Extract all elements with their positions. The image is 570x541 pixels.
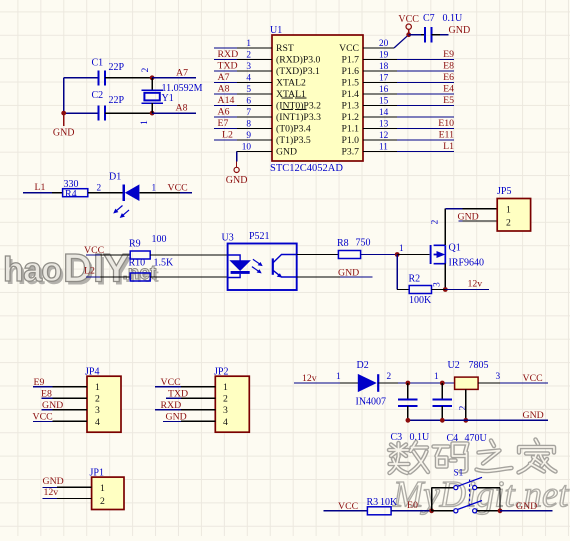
svg-text:19: 19: [379, 51, 389, 61]
svg-text:2: 2: [223, 394, 228, 405]
junction: [498, 508, 503, 513]
junction: [406, 381, 411, 386]
svg-text:12v: 12v: [44, 487, 59, 498]
wire: [477, 510, 500, 512]
svg-text:VCC: VCC: [161, 377, 181, 388]
U1 pin 13: [363, 118, 454, 129]
wire: [236, 152, 238, 162]
svg-text:U3: U3: [222, 233, 234, 244]
svg-text:750: 750: [356, 238, 371, 249]
connector JP1: [90, 468, 125, 510]
svg-text:0.1U: 0.1U: [410, 432, 431, 443]
wire: [459, 220, 463, 222]
svg-text:10: 10: [242, 143, 252, 153]
svg-text:XTAL1: XTAL1: [276, 89, 306, 100]
svg-text:S1: S1: [454, 469, 464, 479]
wire: [64, 77, 98, 79]
junction: [406, 418, 411, 423]
svg-text:2: 2: [387, 372, 392, 382]
svg-text:2: 2: [431, 219, 441, 224]
junction: [150, 75, 155, 80]
wire: [444, 264, 446, 290]
power port GND (U1 pin10): [226, 162, 248, 187]
wire: [64, 112, 98, 114]
U1 pin 16: [363, 84, 454, 95]
svg-text:D2: D2: [357, 360, 369, 371]
svg-text:22P: 22P: [109, 62, 125, 73]
junction: [443, 287, 448, 292]
svg-text:4: 4: [223, 417, 228, 428]
U1 pin 2: [214, 49, 272, 61]
wire: [43, 498, 58, 500]
svg-text:16: 16: [379, 85, 389, 95]
svg-text:20: 20: [379, 39, 389, 49]
svg-text:MyDigit.net: MyDigit.net: [392, 474, 569, 515]
svg-text:XTAL2: XTAL2: [276, 78, 306, 89]
junction: [440, 418, 445, 423]
U1 pin 6: [214, 95, 272, 107]
U1 pin 15: [363, 95, 454, 106]
svg-text:7: 7: [246, 108, 251, 118]
U1 pin 20: [363, 39, 394, 49]
resistor R10 1.5K: [129, 258, 175, 282]
capacitor C4 470U: [433, 383, 488, 444]
watermark haoDIY.net: [3, 247, 159, 294]
svg-text:E7: E7: [218, 118, 229, 129]
svg-text:E11: E11: [439, 130, 455, 141]
wire: [43, 486, 58, 488]
power port GND: [53, 113, 75, 138]
svg-text:P1.1: P1.1: [342, 124, 360, 135]
svg-text:R3: R3: [367, 497, 379, 508]
svg-text:P1.2: P1.2: [342, 112, 360, 123]
svg-text:2: 2: [246, 51, 251, 61]
svg-text:1: 1: [434, 372, 439, 382]
resistor R3 10K: [367, 497, 399, 515]
svg-text:3: 3: [433, 282, 443, 287]
svg-text:C7: C7: [423, 13, 435, 24]
wire: [105, 112, 152, 114]
wire: [152, 77, 196, 79]
watermark MyDigit.net: [392, 474, 569, 515]
svg-text:2: 2: [100, 496, 105, 507]
wire: [396, 255, 398, 290]
svg-text:14: 14: [379, 108, 389, 118]
wire: [42, 409, 53, 411]
wire: [499, 488, 501, 511]
svg-text:7805: 7805: [469, 360, 489, 371]
svg-text:P521: P521: [249, 231, 270, 242]
svg-text:470U: 470U: [465, 433, 488, 444]
junction: [395, 252, 400, 257]
svg-text:1: 1: [95, 382, 100, 393]
svg-text:C2: C2: [92, 90, 104, 101]
wire: [478, 382, 500, 384]
svg-text:2: 2: [459, 405, 469, 410]
svg-text:C4: C4: [447, 433, 459, 444]
wire: [465, 389, 467, 420]
wire: [445, 208, 462, 210]
svg-text:P1.5: P1.5: [342, 78, 360, 89]
svg-text:15: 15: [379, 97, 389, 107]
U1 pin 18: [363, 61, 454, 72]
svg-text:U1: U1: [270, 25, 282, 36]
svg-text:GND: GND: [42, 400, 63, 411]
svg-text:P1.4: P1.4: [342, 89, 360, 100]
connector JP2: [214, 367, 249, 433]
svg-text:A7: A7: [176, 67, 188, 78]
svg-text:E5: E5: [443, 95, 454, 106]
svg-text:5: 5: [246, 85, 251, 95]
svg-text:U2: U2: [448, 360, 460, 371]
svg-text:L1: L1: [443, 141, 454, 152]
svg-text:VCC: VCC: [33, 412, 53, 423]
svg-text:9: 9: [246, 131, 251, 141]
svg-text:D1: D1: [109, 172, 121, 183]
svg-text:R9: R9: [129, 239, 141, 250]
wire: [432, 510, 454, 512]
svg-text:R8: R8: [337, 238, 349, 249]
junction: [61, 111, 66, 116]
connector JP4: [85, 367, 121, 433]
U1 pin 17: [363, 72, 454, 83]
wire: [297, 276, 340, 278]
resistor R2 100K: [409, 274, 433, 306]
svg-text:E0: E0: [407, 500, 418, 511]
svg-text:TXD: TXD: [218, 61, 238, 72]
svg-text:L2: L2: [222, 130, 233, 141]
svg-text:E4: E4: [443, 84, 454, 95]
svg-text:E8: E8: [41, 389, 52, 400]
U1 pin 11: [363, 141, 454, 152]
wire: [361, 254, 398, 256]
svg-text:P1.6: P1.6: [342, 66, 360, 77]
svg-text:GND: GND: [53, 128, 75, 139]
svg-text:3: 3: [95, 405, 100, 416]
wire: [477, 487, 500, 489]
junction: [440, 381, 445, 386]
wire: [105, 77, 152, 79]
optocoupler U3 P521: [222, 231, 297, 290]
resistor R8 750: [337, 238, 371, 259]
svg-text:1: 1: [223, 382, 228, 393]
junction: [463, 418, 468, 423]
junction: [429, 508, 434, 513]
switch S1: [454, 469, 483, 513]
U1 pin 19: [363, 49, 454, 60]
wire: [431, 488, 433, 511]
svg-text:P1.3: P1.3: [342, 101, 360, 112]
wire: [440, 34, 449, 36]
diode D2 IN4007: [340, 360, 398, 407]
wire: [324, 510, 368, 512]
resistor R9 100: [129, 234, 167, 259]
svg-text:2: 2: [97, 184, 102, 194]
svg-text:VCC: VCC: [398, 14, 419, 25]
svg-text:VCC: VCC: [168, 182, 188, 193]
svg-text:STC12C4052AD: STC12C4052AD: [270, 163, 343, 174]
wire: [391, 510, 432, 512]
capacitor C1 22P: [92, 58, 125, 86]
wire: [445, 289, 489, 291]
wire: [432, 289, 446, 291]
svg-text:GND: GND: [276, 147, 297, 158]
svg-text:12v: 12v: [468, 279, 483, 290]
U1 pin 7: [214, 107, 272, 119]
svg-text:2: 2: [506, 218, 511, 229]
svg-text:100: 100: [152, 234, 167, 245]
svg-text:GND: GND: [523, 410, 544, 421]
svg-text:2: 2: [141, 67, 151, 72]
svg-text:GND: GND: [516, 501, 537, 512]
regulator U2 7805: [448, 360, 489, 410]
svg-text:hao: hao: [3, 251, 61, 289]
svg-text:IN4007: IN4007: [356, 396, 387, 407]
U1 pin 12: [363, 130, 454, 141]
svg-text:(T1)P3.5: (T1)P3.5: [276, 135, 311, 146]
svg-text:1: 1: [336, 372, 341, 382]
wire: [33, 420, 53, 422]
svg-text:8: 8: [246, 120, 251, 130]
svg-text:22P: 22P: [109, 95, 125, 106]
svg-text:R10: R10: [129, 258, 146, 269]
svg-text:4: 4: [246, 74, 251, 84]
svg-text:100K: 100K: [409, 295, 432, 306]
svg-text:RXD: RXD: [218, 49, 239, 60]
svg-text:R2: R2: [409, 274, 421, 285]
svg-text:11: 11: [379, 143, 388, 153]
svg-text:GND: GND: [43, 476, 64, 487]
capacitor C7 0.1U: [421, 13, 463, 42]
wire: [63, 78, 65, 113]
svg-text:12: 12: [379, 131, 389, 141]
svg-text:1: 1: [399, 244, 404, 254]
wire: [500, 382, 548, 384]
wire: [139, 192, 180, 194]
svg-text:P3.7: P3.7: [342, 147, 360, 158]
svg-text:VCC: VCC: [523, 373, 543, 384]
svg-text:10K: 10K: [380, 497, 398, 508]
transistor Q1 IRF9640: [431, 219, 485, 287]
wire: [155, 409, 181, 411]
wire: [394, 35, 409, 48]
wire: [33, 386, 53, 388]
svg-text:A7: A7: [218, 72, 230, 83]
svg-text:A14: A14: [218, 95, 235, 106]
svg-text:RST: RST: [276, 43, 294, 54]
svg-text:E8: E8: [443, 61, 454, 72]
U1 pin 9: [214, 130, 272, 142]
wire: [166, 397, 181, 399]
svg-text:6: 6: [246, 97, 251, 107]
U1 pin 8: [214, 118, 272, 130]
connector JP5: [497, 186, 531, 231]
svg-text:E9: E9: [34, 377, 45, 388]
wire: [397, 254, 429, 256]
svg-text:VCC: VCC: [339, 43, 359, 54]
svg-text:R4: R4: [65, 189, 77, 200]
wire: [463, 220, 498, 222]
wire: [408, 419, 548, 421]
svg-text:E9: E9: [443, 49, 454, 60]
svg-text:(TXD)P3.1: (TXD)P3.1: [276, 66, 320, 77]
U1 pin 4: [214, 72, 272, 84]
wire: [155, 386, 181, 388]
wire: [152, 112, 196, 114]
svg-text:17: 17: [379, 74, 389, 84]
U1 pin 14: [363, 108, 454, 118]
U1 pin 3: [214, 61, 272, 73]
capacitor C3 0.1U: [391, 383, 431, 443]
svg-text:(INT0)P3.2: (INT0)P3.2: [276, 101, 321, 112]
svg-text:1: 1: [140, 120, 150, 125]
svg-text:GND: GND: [449, 25, 471, 36]
wire: [23, 192, 52, 194]
U1 pin 5: [214, 84, 272, 96]
wire: [294, 382, 340, 384]
wire: [163, 420, 181, 422]
watermark 数码之家: [389, 440, 556, 474]
svg-text:Q1: Q1: [449, 243, 461, 254]
svg-text:GND: GND: [226, 175, 248, 186]
svg-text:13: 13: [379, 120, 389, 130]
wire: [398, 382, 455, 384]
svg-text:P1.7: P1.7: [342, 55, 360, 66]
svg-text:3: 3: [246, 62, 251, 72]
wire: [88, 192, 123, 194]
U1 pin 10: [237, 143, 272, 153]
svg-text:TXD: TXD: [168, 389, 188, 400]
wire: [297, 254, 339, 256]
junction: [150, 111, 155, 116]
junction: [406, 32, 411, 37]
resistor R4 330: [63, 179, 88, 200]
wire: [86, 276, 100, 278]
svg-text:1: 1: [100, 483, 105, 494]
svg-text:P1.0: P1.0: [342, 135, 360, 146]
svg-text:L2: L2: [84, 266, 95, 277]
svg-text:2: 2: [95, 394, 100, 405]
wire: [432, 487, 454, 489]
capacitor C2 22P: [92, 90, 125, 121]
svg-text:GND: GND: [338, 268, 359, 279]
svg-text:RXD: RXD: [161, 400, 182, 411]
svg-text:C3: C3: [391, 432, 403, 443]
svg-text:1: 1: [246, 39, 251, 49]
wire: [86, 254, 100, 256]
svg-text:1: 1: [506, 204, 511, 215]
wire: [463, 208, 498, 210]
svg-text:3: 3: [496, 372, 501, 382]
LED D1: [109, 172, 139, 219]
wire: [150, 254, 227, 256]
U1 pin 1: [214, 39, 272, 49]
wire: [409, 34, 421, 36]
wire: [42, 397, 53, 399]
wire: [444, 209, 446, 245]
svg-text:C1: C1: [92, 58, 104, 69]
svg-text:Y1: Y1: [162, 93, 174, 104]
svg-text:1.5K: 1.5K: [154, 258, 175, 269]
IC U1 STC12C4052AD: [270, 25, 363, 174]
wire: [500, 510, 553, 512]
power port VCC: [398, 14, 419, 35]
svg-text:A6: A6: [218, 107, 230, 118]
wire: [397, 289, 409, 291]
svg-text:E6: E6: [443, 72, 454, 83]
crystal Y1 11.0592M: [140, 67, 203, 125]
svg-text:E10: E10: [438, 118, 454, 129]
svg-text:A8: A8: [218, 84, 230, 95]
svg-text:A8: A8: [176, 103, 188, 114]
svg-text:JP5: JP5: [497, 186, 511, 197]
svg-text:0.1U: 0.1U: [443, 13, 464, 24]
svg-text:(INT1)P3.3: (INT1)P3.3: [276, 112, 321, 123]
svg-text:12v: 12v: [302, 373, 317, 384]
svg-text:18: 18: [379, 62, 389, 72]
svg-text:1: 1: [152, 184, 157, 194]
svg-text:(RXD)P3.0: (RXD)P3.0: [276, 55, 321, 66]
svg-text:(T0)P3.4: (T0)P3.4: [276, 124, 311, 135]
svg-text:4: 4: [95, 417, 100, 428]
svg-text:3: 3: [223, 405, 228, 416]
svg-text:L1: L1: [35, 182, 46, 193]
svg-text:IRF9640: IRF9640: [449, 258, 485, 269]
svg-text:GND: GND: [166, 412, 187, 423]
wire: [150, 276, 227, 278]
